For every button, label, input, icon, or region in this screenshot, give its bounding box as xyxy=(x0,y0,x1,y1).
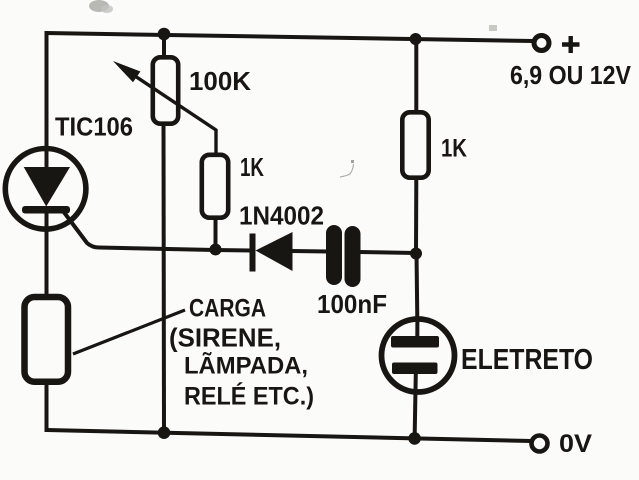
wire: R2 bottom lead xyxy=(214,220,218,250)
microphone plate top xyxy=(391,336,439,348)
SCR Q1 triangle xyxy=(24,167,70,207)
microphone internal lead top xyxy=(415,318,419,337)
SCR Q1 cathode bar xyxy=(22,206,70,214)
svg-text:6,9 OU 12V: 6,9 OU 12V xyxy=(510,60,632,90)
svg-text:LÃMPADA,: LÃMPADA, xyxy=(184,352,308,380)
wire: pot top lead xyxy=(162,34,166,57)
node D: capacitor junction xyxy=(410,248,422,260)
callout line to CARGA text xyxy=(73,310,185,354)
resistor R3 1K body xyxy=(402,112,428,177)
svg-text:1K: 1K xyxy=(441,135,467,163)
svg-text:1K: 1K xyxy=(240,152,264,182)
scan smudge top xyxy=(89,0,113,13)
diode D1 triangle xyxy=(256,232,293,271)
potentiometer R1 100K body xyxy=(153,57,178,123)
svg-text:ELETRETO: ELETRETO xyxy=(461,344,593,376)
node E: bottom-right junction xyxy=(408,432,421,445)
svg-text:100K: 100K xyxy=(189,68,252,96)
terminal + positive xyxy=(534,36,549,51)
wire: SCR cathode to load xyxy=(45,210,49,295)
node C: junction top-right xyxy=(410,33,422,45)
wire: junction to microphone xyxy=(415,253,420,318)
SCR Q1 TIC106 body circle xyxy=(5,149,86,230)
terminal 0V xyxy=(532,436,548,452)
svg-text:0V: 0V xyxy=(559,430,592,458)
potentiometer arrowhead xyxy=(113,61,140,82)
wire: junction to diode xyxy=(215,248,251,253)
svg-text:100nF: 100nF xyxy=(317,289,387,319)
wire: diode to capacitor xyxy=(292,249,328,254)
svg-text:CARGA: CARGA xyxy=(189,295,266,323)
wire: load to bottom rail xyxy=(45,385,49,432)
microphone plate bottom xyxy=(392,363,438,375)
wire: microphone to bottom rail xyxy=(415,373,416,439)
wire: R3 top lead xyxy=(414,38,418,111)
load resistor RL (CARGA) body xyxy=(25,297,69,382)
electret microphone MIC body xyxy=(382,319,455,392)
label + sign xyxy=(562,36,580,53)
wire: bottom rail xyxy=(47,430,531,441)
wire: left rail upper (to SCR anode) xyxy=(45,31,49,168)
svg-text:RELÉ ETC.): RELÉ ETC.) xyxy=(184,382,314,411)
node B: gate junction xyxy=(210,244,222,256)
wire: capacitor to right rail xyxy=(359,252,416,253)
node A: junction top-left xyxy=(158,28,171,41)
diode D1 1N4002 cathode bar xyxy=(250,234,256,272)
resistor R2 1K body xyxy=(202,155,228,218)
scan scratch mid xyxy=(340,164,354,177)
svg-text:(SIRENE,: (SIRENE, xyxy=(169,323,281,353)
wire: middle vertical (pot bottom to bottom rail) xyxy=(162,126,167,433)
capacitor C1 plate right xyxy=(345,226,361,287)
potentiometer arrow shaft xyxy=(120,66,216,153)
scan speck right xyxy=(489,25,497,31)
capacitor C1 plate left xyxy=(326,225,342,285)
wire: top rail xyxy=(46,33,533,41)
wire: R3 bottom lead xyxy=(414,180,418,254)
svg-text:TIC106: TIC106 xyxy=(55,112,133,142)
svg-text:1N4002: 1N4002 xyxy=(239,201,324,231)
wire: SCR gate xyxy=(63,211,215,250)
node F: bottom-left junction xyxy=(158,426,171,439)
